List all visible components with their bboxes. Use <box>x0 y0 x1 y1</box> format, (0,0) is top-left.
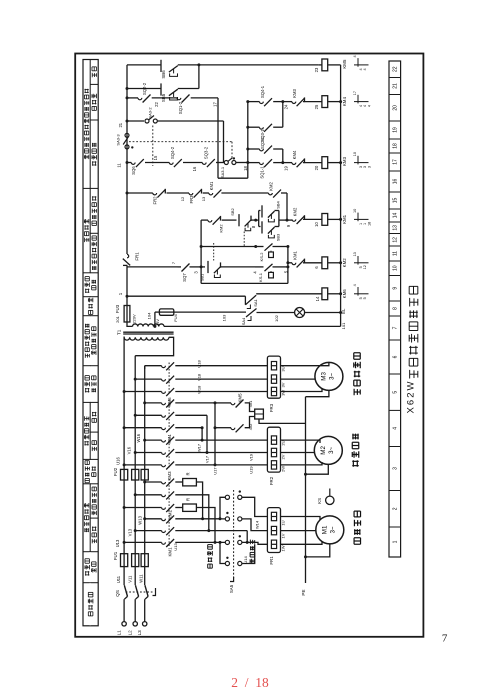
svg-text:SQ6: SQ6 <box>131 166 136 175</box>
phase rail 2 <box>134 480 136 554</box>
wire FU3 to line1 <box>126 296 128 305</box>
row SB6 fast feed button <box>127 64 161 66</box>
svg-text:5: 5 <box>363 297 367 299</box>
crossref KM5 <box>354 64 369 66</box>
svg-text:U14: U14 <box>243 556 248 564</box>
svg-text:KS: KS <box>317 498 322 504</box>
row 8: KM2 NC + SB2 NC <box>201 219 208 221</box>
pair join vertical upper <box>282 102 284 128</box>
phase rail 1 <box>123 480 125 554</box>
phase swap wire B1-C3 <box>175 402 215 404</box>
svg-text:402: 402 <box>248 424 253 431</box>
contactor KM6 main contacts (cooling pump M3) <box>144 366 146 369</box>
start buttons SB4 SB3 parallel <box>256 219 259 221</box>
svg-text:W16: W16 <box>136 433 141 442</box>
svg-text:13: 13 <box>393 225 399 231</box>
svg-text:X62W: X62W <box>406 381 417 413</box>
coil KM5 <box>322 59 328 71</box>
wire lamp to rail <box>305 312 341 314</box>
svg-text:FU3: FU3 <box>115 304 120 313</box>
svg-text:3~: 3~ <box>329 446 335 453</box>
svg-text:4: 4 <box>367 105 371 107</box>
svg-text:KM6: KM6 <box>342 289 347 299</box>
svg-text:SQ2-2: SQ2-2 <box>142 82 147 95</box>
svg-text:FR2: FR2 <box>269 476 274 485</box>
row 11 table feed interlocks <box>126 161 129 164</box>
fuse FU1 c <box>141 554 148 567</box>
svg-text:W14: W14 <box>254 520 259 529</box>
svg-text:18: 18 <box>243 166 248 171</box>
node3 vertical <box>200 220 202 283</box>
svg-text:3V: 3V <box>281 382 286 387</box>
lamp EL <box>295 308 305 318</box>
svg-text:W11: W11 <box>139 574 144 583</box>
svg-text:15: 15 <box>153 155 158 160</box>
bypass wire row <box>201 282 288 284</box>
svg-text:3: 3 <box>393 467 399 470</box>
row KM2 coil <box>288 262 292 264</box>
svg-text:SA1: SA1 <box>253 298 258 306</box>
svg-text:SQ1-1: SQ1-1 <box>260 166 265 179</box>
wire QS to FU1 x3 <box>123 567 125 585</box>
clutch rectifier box 401 <box>255 409 264 419</box>
svg-text:4: 4 <box>363 68 367 70</box>
svg-text:L3: L3 <box>137 630 142 636</box>
fuse FU1 a <box>121 554 128 567</box>
svg-text:KM3: KM3 <box>292 89 297 98</box>
speed relay contact KS-1 <box>255 266 264 268</box>
svg-text:11: 11 <box>393 251 399 256</box>
power terminal L1 <box>122 622 126 626</box>
clutch box to PE wire <box>259 419 306 423</box>
svg-text:FU2: FU2 <box>113 467 118 476</box>
limit contact SQ4-1 <box>246 100 249 103</box>
svg-text:V19: V19 <box>249 454 254 461</box>
svg-text:KM1: KM1 <box>292 251 297 260</box>
svg-text:KM5: KM5 <box>342 59 347 69</box>
svg-text:3W: 3W <box>281 390 286 396</box>
selector SA3-3 contact on rail <box>125 133 129 137</box>
svg-text:7: 7 <box>393 326 399 329</box>
svg-text:SB1: SB1 <box>200 273 205 281</box>
svg-text:V16: V16 <box>127 446 132 454</box>
row SB5 fast feed button <box>126 87 129 90</box>
wires FR1 to M1 <box>281 517 321 521</box>
M2 to PE wire <box>306 464 329 474</box>
svg-text:1W: 1W <box>281 545 286 551</box>
speed relay contact KS-2 <box>256 246 264 248</box>
crossref KM6 <box>354 293 369 295</box>
svg-text:U17: U17 <box>213 467 218 475</box>
power terminal L3 <box>143 622 147 626</box>
svg-text:SQ4-2: SQ4-2 <box>170 146 175 159</box>
fuse FU4 <box>159 309 173 315</box>
SA5 handle mark <box>230 577 234 582</box>
crossref KM4 <box>354 101 369 103</box>
PE earth line <box>305 397 307 583</box>
svg-text:10: 10 <box>393 265 399 271</box>
svg-text:KM5: KM5 <box>238 393 243 403</box>
svg-text:FR2: FR2 <box>153 196 158 205</box>
svg-text:SQ4-1: SQ4-1 <box>260 85 265 98</box>
svg-text:21: 21 <box>393 83 399 89</box>
interlock KM3 NC <box>292 102 296 104</box>
line 1 wire <box>126 295 129 298</box>
svg-text:U13: U13 <box>115 539 120 547</box>
svg-text:W17: W17 <box>197 443 202 452</box>
svg-text:6: 6 <box>393 355 399 358</box>
SA5 left bridge 2 <box>220 542 225 563</box>
border frame of schematic sheet <box>75 54 423 637</box>
svg-text:14: 14 <box>393 213 399 219</box>
wire 103 to SA4 <box>174 311 246 313</box>
KM2 output merge wires <box>196 482 202 519</box>
svg-text:U11: U11 <box>116 575 121 583</box>
svg-text:KM2: KM2 <box>342 258 347 268</box>
svg-text:14: 14 <box>315 296 320 301</box>
row 3: from FR1 via SQ7 and SB1 <box>127 266 178 268</box>
svg-text:21: 21 <box>118 122 123 127</box>
svg-text:SA5: SA5 <box>229 584 234 593</box>
interlock KM2 NC b <box>292 219 296 221</box>
coil KM4 <box>322 96 328 108</box>
contactor KM3 main contacts (feed M2 forward) <box>143 439 146 442</box>
svg-text:102: 102 <box>274 314 279 321</box>
svg-text:7: 7 <box>442 633 448 645</box>
reversing switch SA5 <box>233 490 235 578</box>
phase swap wire B3-C1 <box>175 427 202 429</box>
motor M2 feed motor <box>314 436 342 464</box>
transformer core <box>123 331 173 333</box>
contactor KM2 main contacts (spindle brake) <box>143 481 146 484</box>
wire L1 to QS <box>123 599 125 621</box>
svg-text:W13: W13 <box>137 515 142 524</box>
fast-feed clutch contact KM5 b <box>214 426 217 429</box>
svg-text:3U: 3U <box>281 366 286 371</box>
svg-text:SQ1-2: SQ1-2 <box>178 101 183 114</box>
svg-text:3~: 3~ <box>331 526 337 533</box>
svg-text:R: R <box>186 472 191 475</box>
QS mechanical link <box>126 591 153 593</box>
svg-text:3~: 3~ <box>330 372 336 379</box>
aux contact KM2 b <box>269 193 273 195</box>
svg-text:4: 4 <box>353 55 357 57</box>
header table row lines <box>90 83 98 85</box>
M3 to PE wire <box>306 390 329 396</box>
self hold drop wire <box>286 193 288 220</box>
stop button SB2 <box>238 214 240 226</box>
svg-text:18: 18 <box>367 222 371 226</box>
coil KM2 <box>322 257 328 269</box>
thermal relay FR1 box <box>267 508 280 553</box>
primary right jog to rail 2 <box>135 337 173 355</box>
svg-text:19: 19 <box>393 127 399 133</box>
aux contact KM1 self-hold <box>209 193 213 195</box>
label spindle reverse (CJK) <box>250 540 255 564</box>
SA5 right outputs <box>242 497 268 516</box>
motor M1 spindle <box>316 516 344 544</box>
svg-text:13: 13 <box>353 252 357 256</box>
svg-text:U18: U18 <box>197 360 202 368</box>
feed selector bus vertical <box>247 102 249 179</box>
svg-text:R: R <box>186 498 191 501</box>
svg-text:15: 15 <box>393 198 399 204</box>
svg-text:FR1: FR1 <box>135 252 140 261</box>
svg-text:FR3: FR3 <box>189 195 194 204</box>
label feed motor (CJK) <box>352 434 358 467</box>
svg-text:220V: 220V <box>132 314 137 324</box>
fuse FU3 <box>124 306 130 323</box>
fuse FU2 a <box>121 469 128 480</box>
svg-text:11: 11 <box>117 163 122 168</box>
svg-text:5: 5 <box>393 391 399 394</box>
limit contact SQ2-1 <box>246 148 249 151</box>
svg-text:25: 25 <box>314 104 319 109</box>
switch QS pole 2 <box>135 585 138 596</box>
header table cell texts (rotated CJK) <box>92 67 96 77</box>
svg-text:M3: M3 <box>320 372 327 381</box>
svg-text:V13: V13 <box>127 528 132 536</box>
svg-text:13: 13 <box>201 196 206 201</box>
svg-text:L1: L1 <box>117 630 122 636</box>
svg-text:FU4: FU4 <box>173 313 178 321</box>
jog switch SQ7 <box>178 266 182 268</box>
SA5 left bridge 1 <box>220 497 225 519</box>
resistor R lower <box>175 507 182 509</box>
svg-text:22: 22 <box>154 102 159 107</box>
svg-text:KM1: KM1 <box>342 214 347 224</box>
control right rail <box>340 65 342 327</box>
svg-text:101: 101 <box>341 322 346 329</box>
svg-text:SQ2-1: SQ2-1 <box>260 136 265 149</box>
svg-text:SB2: SB2 <box>230 207 235 215</box>
phase rail 3 <box>144 480 146 554</box>
svg-text:U19: U19 <box>249 466 254 473</box>
wire to KM3 coil row <box>273 162 283 164</box>
svg-text:401: 401 <box>248 401 253 408</box>
switch SA4 <box>246 309 257 318</box>
label spindle forward (CJK) <box>208 545 213 569</box>
svg-text:U16: U16 <box>116 456 121 464</box>
thermal relay FR3 box <box>267 356 280 398</box>
crossref KM2 <box>354 262 369 264</box>
motor M3 cooling pump <box>315 362 343 390</box>
svg-text:24V: 24V <box>156 319 160 326</box>
row spindle start: FR2 FR3 NC + KM1 aux <box>126 192 129 195</box>
svg-text:W18: W18 <box>197 385 202 394</box>
wire SA4 to lamp <box>257 312 295 314</box>
wire to KM4 coil row <box>273 101 283 103</box>
svg-text:17: 17 <box>213 102 218 107</box>
svg-text:PE: PE <box>301 589 306 595</box>
svg-text:FU1: FU1 <box>113 551 118 560</box>
svg-text:SA3-3: SA3-3 <box>116 134 121 146</box>
svg-text:V11: V11 <box>127 575 132 583</box>
limit contact SQ3-1 <box>246 126 249 129</box>
svg-text:QS: QS <box>115 590 120 597</box>
svg-text:10: 10 <box>353 209 357 213</box>
svg-text:KM4: KM4 <box>342 97 347 107</box>
svg-text:SA4: SA4 <box>241 317 246 325</box>
svg-text:V18: V18 <box>197 373 202 381</box>
svg-text:U13: U13 <box>173 543 178 551</box>
fast-feed clutch contact KM5 a <box>215 402 231 404</box>
svg-text:KM2: KM2 <box>292 207 297 216</box>
wire 21 to row link <box>223 121 225 163</box>
phase rail 2 upper <box>134 356 136 470</box>
resistor R upper <box>175 481 182 483</box>
svg-text:12: 12 <box>393 237 399 243</box>
contactor KM4 main contacts (feed M2 reverse) <box>143 401 146 404</box>
speed relay KS <box>326 496 334 504</box>
svg-text:FR1: FR1 <box>269 556 274 565</box>
svg-text:FR3: FR3 <box>269 403 274 412</box>
svg-text:2 / 18: 2 / 18 <box>231 675 269 690</box>
svg-text:104: 104 <box>146 312 151 319</box>
crossref KM3 <box>354 162 369 164</box>
phase swap wire B2-C2 <box>175 414 207 416</box>
svg-text:10: 10 <box>314 222 319 227</box>
svg-text:SA3-2: SA3-2 <box>148 107 153 119</box>
thermal contact FR1 on rail <box>127 254 129 257</box>
transformer T1 secondary winding <box>133 324 165 326</box>
svg-text:4: 4 <box>393 427 399 430</box>
svg-text:1: 1 <box>393 540 399 543</box>
svg-text:201: 201 <box>115 315 120 322</box>
svg-text:KM3: KM3 <box>342 156 347 166</box>
interlock KM1 NC c <box>292 263 296 265</box>
phase rail 1 upper <box>123 337 125 470</box>
start button SB3 <box>259 226 261 228</box>
wire SB6 to KM5 coil <box>199 64 318 66</box>
svg-text:M2: M2 <box>320 446 327 455</box>
interlock KM4 NC <box>292 163 296 165</box>
svg-text:1V: 1V <box>281 533 286 538</box>
svg-text:16: 16 <box>393 179 399 185</box>
row 21 selector SA3-2 <box>126 120 129 123</box>
switch QS pole 1 <box>124 585 127 596</box>
svg-text:SB6: SB6 <box>161 70 166 79</box>
fuse FU1 b <box>132 554 139 567</box>
wires KM1 to SA5 <box>175 518 220 520</box>
svg-text:17: 17 <box>353 91 357 95</box>
crossref KM1 <box>354 218 369 220</box>
svg-text:20: 20 <box>314 165 319 170</box>
wires FR2 to M2 <box>281 440 321 443</box>
limit contact SQ1-1 <box>248 162 260 164</box>
svg-text:2W: 2W <box>281 466 286 472</box>
wire L2 to QS <box>134 599 136 621</box>
coil KM6 <box>322 288 328 300</box>
bottom link row <box>218 177 248 179</box>
svg-text:SQ7: SQ7 <box>182 273 187 282</box>
transformer T1 primary winding <box>124 337 169 340</box>
lamp feed tap <box>154 312 156 326</box>
row SB2 NO bridge <box>201 246 256 248</box>
svg-text:19: 19 <box>284 166 289 171</box>
svg-text:4: 4 <box>353 284 357 286</box>
svg-text:KM4: KM4 <box>292 150 297 159</box>
svg-text:2: 2 <box>393 507 399 510</box>
svg-text:KM1: KM1 <box>168 547 173 557</box>
M1 to PE wire <box>306 544 330 557</box>
svg-text:9: 9 <box>393 287 399 290</box>
svg-text:SB3: SB3 <box>276 233 281 241</box>
svg-text:V17: V17 <box>205 455 210 463</box>
coil KM1 <box>322 214 328 226</box>
label spindle motor (CJK) <box>354 511 360 544</box>
svg-text:24: 24 <box>284 104 289 109</box>
thermal relay FR2 box <box>267 427 280 472</box>
svg-text:22: 22 <box>393 66 399 72</box>
svg-text:8: 8 <box>393 307 399 310</box>
svg-text:2U: 2U <box>281 440 286 445</box>
label cooling pump motor (CJK) <box>354 353 360 395</box>
svg-text:12: 12 <box>180 196 185 201</box>
wire 101 from secondary to control rail <box>164 325 341 327</box>
stop button SB1 NC <box>201 266 205 268</box>
svg-text:2V: 2V <box>281 454 286 459</box>
svg-text:SB4: SB4 <box>276 200 281 208</box>
wire secondary left to FU3 <box>127 322 133 326</box>
fuse FU2 c <box>141 469 148 480</box>
svg-text:L2: L2 <box>128 630 133 636</box>
svg-text:10: 10 <box>353 152 357 156</box>
fuse FU2 b <box>132 469 139 480</box>
svg-text:M1: M1 <box>321 525 328 534</box>
start button SB4 <box>259 210 261 212</box>
svg-text:3: 3 <box>367 166 371 168</box>
svg-text:KM2: KM2 <box>219 224 224 233</box>
header function table frame <box>83 60 98 626</box>
column number strip <box>389 61 401 557</box>
switch QS pole 3 <box>145 585 148 596</box>
svg-text:KS-2: KS-2 <box>259 252 264 262</box>
KS vertical join <box>287 247 289 284</box>
wire FU4 input <box>155 311 160 313</box>
svg-text:1U: 1U <box>281 520 286 525</box>
wire L3 to QS <box>144 599 146 621</box>
svg-text:KM2: KM2 <box>269 182 274 191</box>
svg-text:T1: T1 <box>116 329 121 335</box>
SB5-SB6 junction wire <box>198 65 200 89</box>
phase rail 3 upper <box>144 366 146 470</box>
svg-text:12: 12 <box>363 265 367 269</box>
SA3 mechanical dashed link <box>129 141 232 143</box>
svg-text:SQ3-2: SQ3-2 <box>204 146 209 159</box>
svg-text:KS-1: KS-1 <box>258 272 263 282</box>
wires FR3 to M3 <box>281 365 321 367</box>
svg-text:18: 18 <box>393 143 399 149</box>
pair join vertical lower <box>282 149 284 163</box>
svg-text:EL: EL <box>341 308 346 314</box>
row SQ2-2 SQ1-2 (jog) <box>126 96 129 99</box>
svg-text:20: 20 <box>393 105 399 111</box>
control left rail (line) <box>126 65 128 254</box>
selector SA3-1 contacts <box>224 161 228 165</box>
svg-text:103: 103 <box>221 314 226 321</box>
power terminal L2 <box>133 622 137 626</box>
svg-text:16: 16 <box>192 166 197 171</box>
contactor KM1 main contacts (spindle run) <box>143 517 146 520</box>
coil KM3 <box>322 157 328 169</box>
svg-text:17: 17 <box>393 159 399 165</box>
svg-text:KM1: KM1 <box>209 181 214 190</box>
svg-text:23: 23 <box>314 67 319 72</box>
row cooling pump switch SA1 <box>244 296 246 305</box>
wire 17 vertical <box>217 98 219 178</box>
svg-text:SA3-1: SA3-1 <box>220 166 225 178</box>
